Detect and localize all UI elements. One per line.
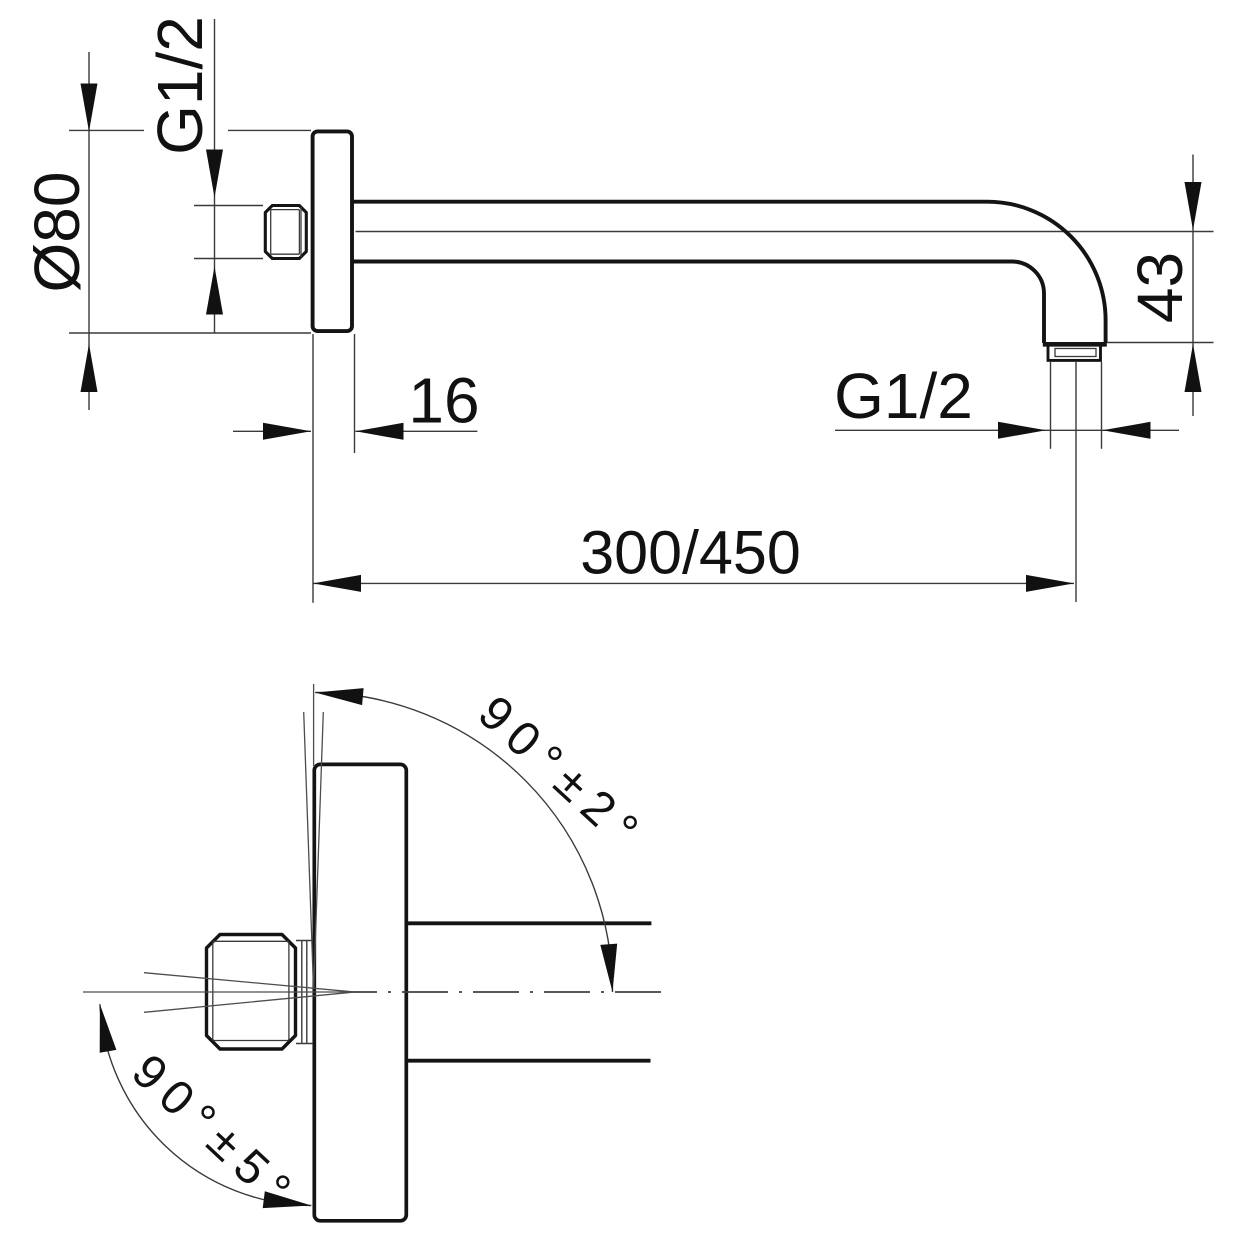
arc1 top arrow xyxy=(315,688,364,705)
+5deg fan line xyxy=(144,973,358,993)
43 bottom arrow xyxy=(1185,344,1202,392)
pipe bottom outline (plan) xyxy=(408,1059,651,1063)
outlet collar outer xyxy=(1048,344,1101,360)
extension line flange top (left seg) xyxy=(69,129,144,131)
-5deg fan line xyxy=(144,992,358,1013)
+2deg fan line xyxy=(304,712,314,988)
wall flange plate (side view) xyxy=(313,131,352,331)
extension line outlet bottom xyxy=(1107,342,1214,344)
shower arm pipe top outline xyxy=(354,200,988,204)
300/450 right arrow xyxy=(1026,575,1074,592)
arc2 bottom arrow xyxy=(263,1191,312,1208)
shower arm pipe bottom outline xyxy=(354,260,1013,264)
G1/2 outlet right arrow xyxy=(1103,422,1151,439)
90deg+-5deg arc xyxy=(100,1004,311,1205)
wall flange plate (plan view) xyxy=(314,764,406,1220)
extension line flange bottom xyxy=(69,332,311,334)
G1/2 wall dimension line xyxy=(214,19,216,333)
G1/2 wall thread nut (side view) outer xyxy=(265,206,306,259)
pipe top outline (plan) xyxy=(408,921,652,925)
extension line flange top (right seg) xyxy=(228,129,311,131)
16 dimension line right seg xyxy=(356,430,478,432)
extension line nut bottom xyxy=(194,258,263,260)
outlet cap line xyxy=(1043,342,1107,347)
svg-text:90°±5°: 90°±5° xyxy=(122,1045,308,1223)
pipe centerline / 43-dim extension line xyxy=(356,231,1214,233)
G1/2 wall bottom arrow xyxy=(206,267,223,315)
outlet right extension line xyxy=(1101,362,1103,449)
vertical angle reference line xyxy=(313,684,315,766)
extension line flange back face xyxy=(312,334,314,603)
svg-text:G1/2: G1/2 xyxy=(834,360,973,432)
300/450 dimension line xyxy=(313,582,1074,584)
nut neck right line xyxy=(306,941,308,1044)
svg-text:43: 43 xyxy=(1124,252,1196,323)
arc1 bottom arrow xyxy=(600,944,617,992)
horizontal angle reference line xyxy=(83,991,352,993)
svg-text:90°±2°: 90°±2° xyxy=(468,686,655,863)
svg-text:300/450: 300/450 xyxy=(580,519,801,587)
nut neck left line xyxy=(301,941,303,1044)
16 left arrow xyxy=(263,423,311,440)
43 dimension line xyxy=(1192,155,1194,417)
16 dimension line left seg xyxy=(233,430,311,432)
nut inner chamfer rect xyxy=(271,210,300,255)
svg-text:16: 16 xyxy=(408,365,479,437)
Ø80 top arrow xyxy=(81,84,98,132)
nut collar line xyxy=(300,207,302,257)
svg-text:G1/2: G1/2 xyxy=(144,16,216,155)
bend inner arc xyxy=(1012,262,1044,344)
bend outer arc xyxy=(987,202,1106,343)
nut neck top line xyxy=(296,940,313,942)
Ø80 dimension line xyxy=(88,52,90,410)
G1/2 wall top arrow xyxy=(206,150,223,198)
extension line nut top xyxy=(194,205,263,207)
extension line flange front face xyxy=(354,334,356,453)
90deg+-2deg arc xyxy=(315,693,612,993)
arc2 left arrow xyxy=(100,1004,117,1053)
outlet collar inner xyxy=(1055,349,1096,357)
G1/2 nut (plan view) outer xyxy=(207,935,296,1050)
Ø80 bottom arrow xyxy=(81,344,98,392)
nut neck bottom line xyxy=(296,1043,313,1045)
16 right arrow xyxy=(356,423,404,440)
nut inner rect (plan) xyxy=(213,941,289,1040)
outlet center extension line xyxy=(1075,362,1077,602)
G1/2 outlet left arrow xyxy=(998,422,1046,439)
G1/2 outlet dimension line xyxy=(835,429,1179,431)
svg-text:Ø80: Ø80 xyxy=(21,172,93,293)
300/450 left arrow xyxy=(313,575,361,592)
43 top arrow xyxy=(1185,182,1202,230)
pipe centerline dash-dot xyxy=(352,991,661,993)
outlet left extension line xyxy=(1050,362,1052,449)
-2deg fan line xyxy=(314,712,324,988)
